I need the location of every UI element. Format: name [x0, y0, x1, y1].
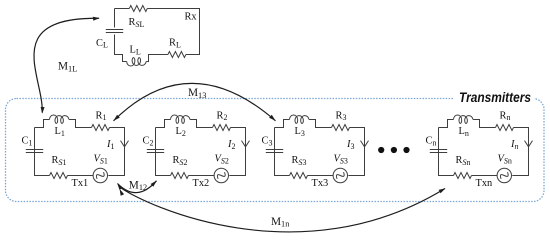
capacitor C1	[26, 150, 43, 153]
Tx3 wires	[275, 120, 365, 176]
Txn wires	[439, 120, 529, 176]
resistor R1	[92, 125, 110, 131]
resistor RS1	[50, 173, 68, 179]
inductor L2	[171, 115, 191, 123]
arrowhead M12 left	[117, 183, 123, 190]
svg-text:CL: CL	[96, 38, 108, 50]
resistor RS2	[171, 173, 189, 179]
source VS1	[93, 168, 107, 182]
svg-text:Transmitters: Transmitters	[459, 89, 531, 105]
svg-text:In: In	[510, 139, 518, 151]
arrowhead M1L bottom	[41, 107, 45, 114]
svg-text:L1: L1	[55, 126, 65, 138]
resistor RL	[168, 52, 186, 58]
svg-text:RS3: RS3	[292, 155, 307, 167]
svg-text:RSn: RSn	[456, 155, 471, 167]
inductor L3	[289, 115, 309, 123]
arrowhead M1n right	[439, 188, 446, 193]
svg-text:RS2: RS2	[173, 155, 188, 167]
Rx loop wires	[115, 9, 200, 62]
inductor LL	[127, 58, 147, 66]
coupling arrow M1n curve	[121, 188, 446, 232]
current arrow I2	[242, 141, 250, 147]
svg-text:I2: I2	[227, 139, 235, 151]
source VSn	[497, 168, 511, 182]
current arrow In	[525, 141, 533, 147]
svg-text:Tx1: Tx1	[72, 178, 89, 189]
current arrow I1	[121, 141, 129, 147]
capacitor C3	[266, 150, 283, 153]
svg-text:Cn: Cn	[426, 136, 437, 148]
current arrow I3	[361, 141, 369, 147]
Tx2 wires	[156, 120, 246, 176]
capacitor CL	[106, 30, 123, 33]
svg-text:M1L: M1L	[58, 61, 77, 74]
resistor R3	[332, 125, 350, 131]
svg-text:VSn: VSn	[498, 154, 512, 166]
dashed box Transmitters	[6, 92, 545, 202]
svg-text:R3: R3	[336, 110, 347, 122]
inductor L1	[50, 115, 70, 123]
svg-text:Rx: Rx	[185, 12, 198, 23]
arrowhead M1L top	[93, 17, 100, 21]
svg-text:M12: M12	[129, 179, 147, 192]
arrowhead M1n left	[120, 189, 125, 196]
svg-text:RL: RL	[169, 38, 181, 50]
inductor Ln	[454, 115, 473, 123]
svg-text:M1n: M1n	[271, 216, 290, 229]
svg-text:VS2: VS2	[215, 154, 229, 166]
coupling arrow M1L curve	[34, 18, 99, 112]
svg-text:R2: R2	[217, 110, 228, 122]
svg-text:LL: LL	[130, 45, 141, 57]
svg-text:Tx2: Tx2	[193, 178, 210, 189]
coupling arrow M12 curve	[118, 181, 157, 193]
svg-text:L2: L2	[176, 126, 186, 138]
arrowhead M13 left	[114, 115, 120, 121]
Tx1 wires	[35, 120, 125, 176]
arrowhead M12 right	[151, 181, 157, 187]
svg-text:R1: R1	[96, 110, 107, 122]
svg-text:RS1: RS1	[52, 155, 67, 167]
capacitor C2	[147, 150, 164, 153]
ellipsis dots	[378, 147, 410, 153]
resistor R2	[213, 125, 231, 131]
coupling arrow M13 curve	[114, 83, 276, 120]
resistor RSL	[129, 6, 147, 12]
resistor Rn	[496, 125, 514, 131]
svg-text:Rn: Rn	[500, 110, 511, 122]
svg-text:C2: C2	[143, 136, 154, 148]
resistor RS3	[290, 173, 308, 179]
source VS2	[214, 168, 228, 182]
svg-text:C1: C1	[22, 136, 33, 148]
capacitor Cn	[430, 150, 447, 153]
svg-text:VS1: VS1	[94, 154, 108, 166]
svg-text:I1: I1	[106, 139, 114, 151]
resistor RSn	[454, 173, 472, 179]
arrowhead M13 right	[269, 115, 275, 121]
svg-text:Ln: Ln	[459, 126, 469, 138]
svg-text:VS3: VS3	[334, 154, 348, 166]
svg-text:C3: C3	[262, 136, 273, 148]
svg-text:L3: L3	[295, 126, 305, 138]
svg-text:M13: M13	[188, 87, 206, 100]
source VS3	[333, 168, 347, 182]
svg-text:RSL: RSL	[129, 17, 145, 29]
svg-text:Txn: Txn	[476, 178, 494, 189]
svg-text:I3: I3	[346, 139, 354, 151]
svg-text:Tx3: Tx3	[312, 178, 329, 189]
